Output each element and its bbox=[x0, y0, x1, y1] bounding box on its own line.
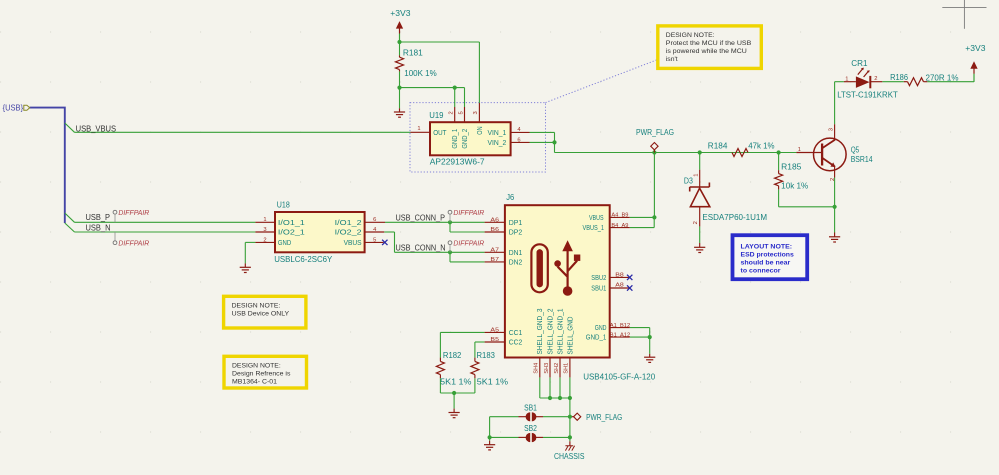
svg-text:47k 1%: 47k 1% bbox=[748, 141, 774, 150]
svg-text:A7: A7 bbox=[490, 248, 499, 254]
svg-text:1: 1 bbox=[417, 126, 420, 132]
svg-text:ESDA7P60-1U1M: ESDA7P60-1U1M bbox=[702, 213, 767, 222]
svg-text:DN2: DN2 bbox=[509, 258, 523, 267]
svg-text:VBUS: VBUS bbox=[589, 213, 604, 222]
svg-text:1: 1 bbox=[798, 147, 801, 153]
svg-text:isn't: isn't bbox=[666, 56, 678, 63]
svg-text:U18: U18 bbox=[277, 200, 290, 209]
svg-text:DESIGN NOTE:: DESIGN NOTE: bbox=[232, 363, 281, 370]
svg-text:USB_CONN_P: USB_CONN_P bbox=[396, 213, 446, 222]
svg-text:2: 2 bbox=[874, 76, 877, 82]
svg-text:SBU2: SBU2 bbox=[591, 273, 606, 282]
svg-text:B5: B5 bbox=[490, 337, 499, 343]
svg-text:DIFFPAIR: DIFFPAIR bbox=[118, 238, 150, 247]
svg-text:R186: R186 bbox=[890, 73, 908, 82]
svg-text:should be near: should be near bbox=[741, 260, 791, 267]
svg-text:DESIGN NOTE:: DESIGN NOTE: bbox=[232, 303, 281, 310]
svg-text:{USB}: {USB} bbox=[3, 102, 24, 112]
svg-text:DN1: DN1 bbox=[509, 248, 523, 257]
svg-text:A8: A8 bbox=[615, 283, 624, 289]
svg-text:PWR_FLAG: PWR_FLAG bbox=[636, 128, 674, 137]
svg-text:R181: R181 bbox=[403, 48, 423, 57]
svg-text:USB_CONN_N: USB_CONN_N bbox=[396, 244, 446, 253]
svg-text:is powered while the MCU: is powered while the MCU bbox=[666, 48, 747, 55]
svg-text:270R 1%: 270R 1% bbox=[926, 74, 959, 83]
svg-text:SH1: SH1 bbox=[564, 363, 570, 374]
svg-text:2: 2 bbox=[693, 221, 699, 224]
svg-text:USB_P: USB_P bbox=[86, 213, 111, 222]
svg-text:5K1 1%: 5K1 1% bbox=[477, 378, 508, 387]
svg-text:DESIGN NOTE:: DESIGN NOTE: bbox=[666, 32, 715, 39]
svg-text:3: 3 bbox=[473, 111, 479, 114]
svg-text:DP2: DP2 bbox=[509, 228, 523, 237]
svg-text:+3V3: +3V3 bbox=[965, 44, 986, 53]
svg-text:10k 1%: 10k 1% bbox=[781, 182, 808, 191]
svg-text:VIN_1: VIN_1 bbox=[488, 128, 507, 137]
svg-text:I/O2_1: I/O2_1 bbox=[278, 228, 305, 237]
svg-text:GND_2: GND_2 bbox=[460, 129, 469, 149]
svg-text:USB Device ONLY: USB Device ONLY bbox=[232, 311, 290, 318]
svg-text:DP1: DP1 bbox=[509, 218, 523, 227]
svg-text:OUT: OUT bbox=[433, 128, 447, 137]
svg-text:B6: B6 bbox=[490, 227, 499, 233]
svg-text:PWR_FLAG: PWR_FLAG bbox=[586, 413, 622, 422]
svg-text:6: 6 bbox=[373, 217, 376, 223]
svg-text:J6: J6 bbox=[506, 193, 515, 202]
svg-text:DIFFPAIR: DIFFPAIR bbox=[453, 208, 485, 217]
svg-text:ESD protections: ESD protections bbox=[741, 252, 795, 259]
svg-text:1: 1 bbox=[694, 174, 700, 177]
svg-text:to connecor: to connecor bbox=[741, 268, 781, 275]
svg-text:USB_VBUS: USB_VBUS bbox=[76, 124, 117, 133]
svg-text:I/O1_2: I/O1_2 bbox=[335, 218, 362, 227]
svg-text:A1_B12: A1_B12 bbox=[610, 323, 630, 329]
svg-text:R185: R185 bbox=[781, 163, 802, 172]
svg-text:CHASSIS: CHASSIS bbox=[554, 452, 585, 461]
svg-text:R182: R182 bbox=[443, 351, 462, 360]
svg-text:GND_1: GND_1 bbox=[450, 129, 459, 149]
svg-text:B1_A12: B1_A12 bbox=[610, 333, 630, 339]
svg-text:3: 3 bbox=[263, 227, 266, 233]
svg-text:LAYOUT NOTE:: LAYOUT NOTE: bbox=[741, 243, 793, 250]
svg-text:Q5: Q5 bbox=[851, 146, 860, 155]
svg-text:MB1364- C-01: MB1364- C-01 bbox=[232, 378, 277, 385]
svg-text:2: 2 bbox=[448, 111, 454, 114]
svg-text:SB1: SB1 bbox=[524, 403, 537, 412]
svg-text:U19: U19 bbox=[429, 111, 444, 120]
svg-text:5K1 1%: 5K1 1% bbox=[440, 378, 471, 387]
svg-text:R183: R183 bbox=[477, 351, 496, 360]
svg-text:LTST-C191KRKT: LTST-C191KRKT bbox=[837, 91, 898, 100]
svg-text:6: 6 bbox=[517, 137, 520, 143]
svg-text:SH4: SH4 bbox=[534, 362, 540, 374]
svg-text:2: 2 bbox=[830, 178, 836, 181]
svg-text:SHELL_GND_2: SHELL_GND_2 bbox=[545, 309, 554, 355]
svg-text:USB_N: USB_N bbox=[86, 224, 111, 233]
svg-text:USBLC6-2SC6Y: USBLC6-2SC6Y bbox=[274, 255, 333, 264]
svg-text:SHELL_GND: SHELL_GND bbox=[565, 317, 574, 355]
svg-text:ON: ON bbox=[475, 126, 484, 134]
svg-text:CR1: CR1 bbox=[851, 59, 868, 68]
svg-text:Design Refrence is: Design Refrence is bbox=[232, 371, 291, 378]
svg-text:DIFFPAIR: DIFFPAIR bbox=[453, 238, 485, 247]
svg-text:Protect the MCU if the USB: Protect the MCU if the USB bbox=[666, 40, 752, 47]
svg-text:SB2: SB2 bbox=[524, 424, 537, 433]
svg-text:SBU1: SBU1 bbox=[591, 284, 606, 293]
svg-text:CC1: CC1 bbox=[509, 328, 523, 337]
svg-text:SHELL_GND_1: SHELL_GND_1 bbox=[555, 309, 564, 355]
svg-text:SH2: SH2 bbox=[554, 363, 560, 374]
svg-text:GND_1: GND_1 bbox=[586, 333, 607, 342]
svg-text:R184: R184 bbox=[708, 141, 728, 150]
svg-text:+3V3: +3V3 bbox=[390, 9, 411, 18]
svg-text:3: 3 bbox=[828, 128, 834, 131]
svg-text:SHELL_GND_3: SHELL_GND_3 bbox=[535, 309, 544, 355]
svg-text:GND: GND bbox=[595, 323, 607, 332]
svg-text:A5: A5 bbox=[490, 328, 499, 334]
svg-text:1: 1 bbox=[263, 217, 266, 223]
svg-text:AP22913W6-7: AP22913W6-7 bbox=[430, 158, 485, 167]
svg-text:SH3: SH3 bbox=[544, 363, 550, 374]
svg-text:2: 2 bbox=[263, 237, 266, 243]
svg-text:B4_A9: B4_A9 bbox=[611, 223, 628, 229]
svg-text:VIN_2: VIN_2 bbox=[488, 138, 507, 147]
svg-text:BSR14: BSR14 bbox=[851, 155, 873, 164]
svg-text:GND: GND bbox=[278, 238, 291, 247]
svg-text:I/O2_2: I/O2_2 bbox=[335, 228, 362, 237]
svg-text:I/O1_1: I/O1_1 bbox=[278, 218, 305, 227]
svg-text:1: 1 bbox=[845, 77, 848, 83]
svg-text:5: 5 bbox=[458, 111, 464, 114]
svg-text:A6: A6 bbox=[490, 218, 499, 224]
svg-text:5: 5 bbox=[373, 237, 376, 243]
svg-text:VBUS: VBUS bbox=[344, 238, 362, 247]
svg-text:B7: B7 bbox=[490, 257, 499, 263]
svg-text:VBUS_1: VBUS_1 bbox=[583, 223, 605, 232]
svg-text:B8: B8 bbox=[615, 273, 624, 279]
svg-text:A4_B9: A4_B9 bbox=[611, 213, 628, 219]
svg-text:USB4105-GF-A-120: USB4105-GF-A-120 bbox=[583, 373, 656, 382]
svg-text:DIFFPAIR: DIFFPAIR bbox=[118, 208, 150, 217]
svg-text:100K 1%: 100K 1% bbox=[404, 69, 436, 78]
svg-text:D3: D3 bbox=[684, 176, 693, 185]
svg-text:CC2: CC2 bbox=[509, 338, 523, 347]
